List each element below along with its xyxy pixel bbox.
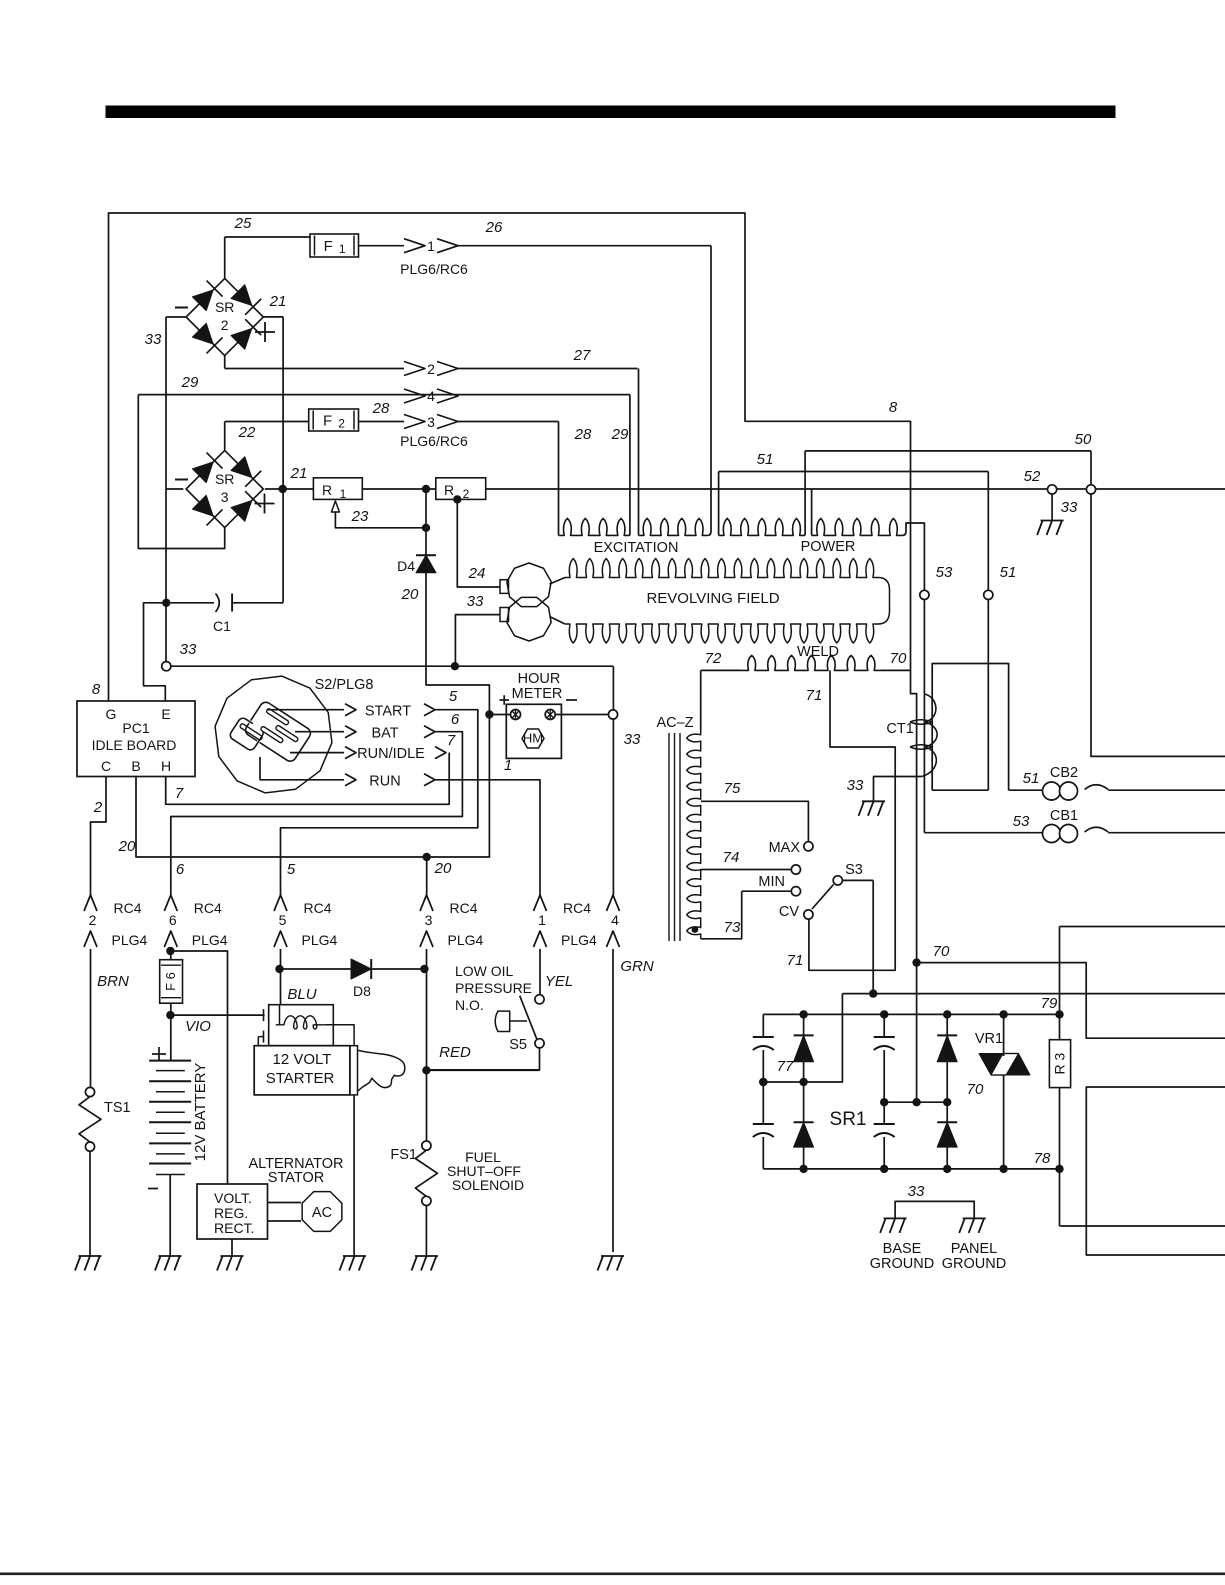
svg-text:CB1: CB1	[1050, 808, 1078, 824]
svg-text:CV: CV	[779, 904, 799, 920]
svg-text:D8: D8	[353, 983, 371, 999]
svg-text:STATOR: STATOR	[268, 1170, 324, 1186]
svg-text:6: 6	[176, 861, 185, 878]
svg-text:SOLENOID: SOLENOID	[452, 1177, 524, 1193]
svg-text:20: 20	[401, 586, 419, 603]
svg-text:TS1: TS1	[104, 1100, 131, 1116]
svg-text:28: 28	[574, 426, 592, 443]
svg-text:PLG4: PLG4	[561, 932, 597, 948]
svg-text:1: 1	[504, 757, 512, 774]
svg-text:28: 28	[372, 400, 390, 417]
svg-text:70: 70	[890, 650, 907, 667]
svg-text:20: 20	[434, 860, 452, 877]
svg-text:R: R	[322, 482, 332, 498]
svg-text:79: 79	[1041, 995, 1058, 1012]
svg-text:WELD: WELD	[797, 644, 839, 660]
svg-text:5: 5	[279, 912, 287, 928]
svg-text:BLU: BLU	[287, 986, 316, 1003]
svg-text:8: 8	[92, 681, 101, 698]
svg-text:RC4: RC4	[304, 900, 332, 916]
svg-text:70: 70	[933, 943, 950, 960]
svg-text:25: 25	[234, 215, 252, 232]
svg-text:33: 33	[180, 641, 197, 658]
svg-text:D4: D4	[397, 558, 415, 574]
svg-text:33: 33	[145, 331, 162, 348]
svg-text:GRN: GRN	[620, 958, 654, 975]
svg-text:71: 71	[787, 952, 804, 969]
svg-text:53: 53	[936, 564, 953, 581]
svg-text:1: 1	[427, 238, 435, 254]
svg-text:PLG4: PLG4	[448, 932, 484, 948]
svg-text:12 VOLT: 12 VOLT	[273, 1051, 332, 1068]
svg-text:70: 70	[967, 1081, 984, 1098]
svg-text:H: H	[161, 758, 171, 774]
svg-text:F: F	[323, 413, 332, 430]
svg-text:YEL: YEL	[545, 973, 573, 990]
svg-text:12V BATTERY: 12V BATTERY	[192, 1063, 209, 1162]
svg-text:C: C	[101, 758, 111, 774]
svg-text:51: 51	[1000, 564, 1017, 581]
svg-text:F: F	[324, 238, 333, 255]
svg-text:G: G	[106, 706, 117, 722]
svg-text:3: 3	[425, 912, 433, 928]
svg-text:33: 33	[847, 777, 864, 794]
svg-text:51: 51	[757, 451, 774, 468]
svg-text:33: 33	[1061, 499, 1078, 516]
svg-text:IDLE BOARD: IDLE BOARD	[92, 737, 177, 753]
svg-text:REG.: REG.	[214, 1205, 248, 1221]
svg-text:75: 75	[724, 780, 741, 797]
svg-text:PRESSURE: PRESSURE	[455, 980, 532, 996]
svg-text:VR1: VR1	[975, 1031, 1003, 1047]
svg-text:PANEL: PANEL	[951, 1241, 997, 1257]
svg-text:52: 52	[1024, 468, 1041, 485]
svg-text:53: 53	[1013, 813, 1030, 830]
svg-text:4: 4	[427, 388, 435, 404]
svg-text:AC: AC	[312, 1205, 332, 1221]
svg-text:S3: S3	[845, 862, 863, 878]
svg-text:PLG4: PLG4	[112, 932, 148, 948]
svg-text:CT1: CT1	[886, 721, 913, 737]
svg-text:74: 74	[723, 849, 740, 866]
svg-text:22: 22	[238, 424, 256, 441]
svg-text:S2/PLG8: S2/PLG8	[315, 677, 374, 693]
svg-text:VIO: VIO	[185, 1018, 211, 1035]
svg-text:1: 1	[538, 912, 546, 928]
svg-text:21: 21	[269, 293, 287, 310]
svg-text:2: 2	[221, 317, 229, 333]
svg-text:50: 50	[1075, 431, 1092, 448]
svg-text:STARTER: STARTER	[266, 1070, 335, 1087]
svg-text:51: 51	[1023, 770, 1040, 787]
svg-text:R 3: R 3	[1052, 1052, 1068, 1074]
svg-text:PLG6/RC6: PLG6/RC6	[400, 433, 468, 449]
svg-text:VOLT.: VOLT.	[214, 1190, 252, 1206]
svg-text:RC4: RC4	[563, 900, 591, 916]
svg-text:8: 8	[889, 399, 898, 416]
svg-text:21: 21	[290, 465, 308, 482]
svg-text:POWER: POWER	[801, 539, 856, 555]
svg-text:73: 73	[724, 919, 741, 936]
svg-text:RED: RED	[439, 1044, 471, 1061]
svg-text:RUN: RUN	[369, 774, 400, 790]
svg-text:SR: SR	[215, 299, 234, 315]
svg-text:6: 6	[169, 912, 177, 928]
svg-text:RC4: RC4	[450, 900, 478, 916]
svg-text:77: 77	[777, 1058, 794, 1075]
svg-text:23: 23	[351, 508, 369, 525]
svg-text:33: 33	[908, 1183, 925, 1200]
svg-text:1: 1	[339, 242, 346, 256]
svg-text:BASE: BASE	[883, 1241, 922, 1257]
svg-text:N.O.: N.O.	[455, 997, 484, 1013]
svg-text:3: 3	[221, 489, 229, 505]
svg-text:24: 24	[468, 565, 486, 582]
svg-text:AC–Z: AC–Z	[656, 715, 693, 731]
svg-text:HM: HM	[523, 731, 543, 746]
svg-text:E: E	[161, 706, 170, 722]
svg-text:METER: METER	[512, 686, 563, 702]
svg-text:29: 29	[181, 374, 199, 391]
svg-text:C1: C1	[213, 618, 231, 634]
svg-text:RC4: RC4	[114, 900, 142, 916]
svg-text:RUN/IDLE: RUN/IDLE	[357, 746, 425, 762]
svg-text:5: 5	[449, 688, 458, 705]
svg-text:2: 2	[463, 487, 470, 501]
svg-text:3: 3	[427, 414, 435, 430]
svg-text:BAT: BAT	[371, 726, 398, 742]
svg-text:20: 20	[118, 838, 136, 855]
svg-text:1: 1	[340, 487, 347, 501]
svg-text:26: 26	[485, 219, 503, 236]
svg-text:5: 5	[287, 861, 296, 878]
svg-text:CB2: CB2	[1050, 765, 1078, 781]
svg-text:REVOLVING FIELD: REVOLVING FIELD	[646, 590, 779, 607]
svg-text:33: 33	[624, 731, 641, 748]
svg-text:LOW OIL: LOW OIL	[455, 963, 514, 979]
svg-text:78: 78	[1034, 1150, 1051, 1167]
svg-text:2: 2	[93, 799, 103, 816]
svg-text:PLG6/RC6: PLG6/RC6	[400, 261, 468, 277]
svg-text:4: 4	[611, 912, 619, 928]
svg-text:SR: SR	[215, 471, 234, 487]
svg-text:SR1: SR1	[830, 1109, 867, 1130]
svg-text:MAX: MAX	[769, 840, 801, 856]
svg-text:33: 33	[467, 593, 484, 610]
svg-text:EXCITATION: EXCITATION	[594, 540, 679, 556]
svg-text:MIN: MIN	[758, 874, 785, 890]
svg-text:RC4: RC4	[194, 900, 222, 916]
svg-text:6: 6	[451, 711, 460, 728]
svg-text:7: 7	[175, 785, 184, 802]
svg-text:27: 27	[573, 347, 591, 364]
svg-text:7: 7	[447, 732, 456, 749]
svg-text:2: 2	[89, 912, 97, 928]
svg-text:B: B	[131, 758, 140, 774]
svg-text:BRN: BRN	[97, 973, 129, 990]
svg-text:71: 71	[806, 687, 823, 704]
svg-text:F 6: F 6	[163, 972, 178, 991]
svg-text:PC1: PC1	[122, 720, 149, 736]
svg-text:HOUR: HOUR	[518, 671, 561, 687]
svg-text:2: 2	[338, 417, 345, 431]
svg-text:S5: S5	[509, 1037, 527, 1053]
svg-text:GROUND: GROUND	[870, 1256, 934, 1272]
svg-text:72: 72	[705, 650, 722, 667]
svg-text:29: 29	[611, 426, 629, 443]
svg-text:RECT.: RECT.	[214, 1220, 254, 1236]
svg-text:R: R	[444, 482, 454, 498]
svg-text:START: START	[365, 704, 411, 720]
svg-text:PLG4: PLG4	[302, 932, 338, 948]
svg-text:GROUND: GROUND	[942, 1256, 1006, 1272]
svg-text:PLG4: PLG4	[192, 932, 228, 948]
svg-text:2: 2	[427, 361, 435, 377]
svg-text:FS1: FS1	[390, 1147, 417, 1163]
